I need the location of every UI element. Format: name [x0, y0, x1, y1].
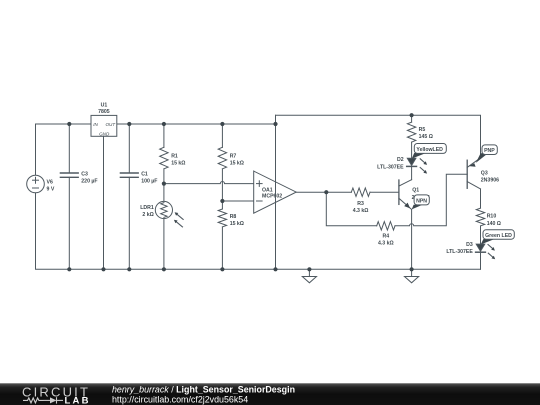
svg-text:LTL-307EE: LTL-307EE [446, 249, 473, 255]
svg-text:OUT: OUT [105, 122, 116, 127]
svg-text:LDR1: LDR1 [140, 205, 154, 211]
svg-text:LTL-307EE: LTL-307EE [377, 164, 404, 170]
label R7 15k [230, 154, 244, 167]
wire R4 to Q3 base (hop over Q1 emitter column) [395, 174, 467, 226]
wire op-amp output [296, 191, 351, 193]
resistor R5 [407, 115, 415, 158]
svg-text:145 Ω: 145 Ω [419, 134, 433, 140]
svg-text:IN: IN [93, 122, 98, 127]
svg-text:R7: R7 [230, 154, 237, 160]
LED D3 [476, 244, 496, 269]
resistor R10 [476, 208, 484, 244]
flag NPN [412, 195, 430, 210]
svg-text:PNP: PNP [484, 148, 495, 154]
svg-text:U1: U1 [101, 102, 108, 108]
photoresistor LDR1 [155, 201, 183, 269]
resistor R3 [351, 188, 370, 196]
wire top main rail left (V6 to U1 IN) [36, 124, 92, 175]
svg-text:100 µF: 100 µF [141, 178, 157, 184]
svg-text:henry_burrack / Light_Sensor_S: henry_burrack / Light_Sensor_SeniorDesgi… [112, 385, 295, 395]
svg-text:YellowLED: YellowLED [416, 147, 443, 153]
svg-text:2 kΩ: 2 kΩ [142, 212, 153, 218]
svg-text:D2: D2 [397, 157, 404, 163]
svg-text:4.3 kΩ: 4.3 kΩ [353, 208, 369, 214]
label Q3 2N3906 [481, 170, 499, 183]
svg-text:9 V: 9 V [47, 187, 55, 193]
svg-text:140 Ω: 140 Ω [487, 221, 501, 227]
svg-text:15 kΩ: 15 kΩ [230, 160, 244, 166]
resistor R7 [218, 124, 226, 209]
label Q1 2N3904 [412, 187, 430, 201]
ground symbol (Q1 emitter) [405, 269, 419, 283]
label C3 220uF [81, 171, 97, 184]
svg-text:GND: GND [99, 131, 110, 136]
label U1 7805 [93, 102, 116, 136]
label D2 LTL-307EE [377, 157, 404, 170]
op-amp OA1 MCP602 [254, 171, 297, 213]
label LDR1 2k [140, 205, 154, 218]
LED D2 [407, 158, 427, 179]
svg-text:R10: R10 [487, 213, 497, 219]
wire upper rail (supply tee up and across to Q3) [276, 115, 481, 158]
svg-text:15 kΩ: 15 kΩ [171, 160, 185, 166]
transistor Q1 [399, 180, 412, 270]
svg-text:Q3: Q3 [481, 170, 488, 176]
label R4 4.3k [378, 234, 394, 247]
label R10 140 [487, 213, 501, 226]
label OA1 MCP602 [262, 188, 282, 200]
wire op-amp noninverting input (with hop over R7 column) [164, 182, 254, 184]
flag YellowLED [412, 144, 447, 159]
wire output junction down to R4 [326, 192, 376, 226]
voltage source V6 [27, 175, 45, 193]
flag Green LED [481, 230, 515, 245]
svg-text:C3: C3 [81, 171, 88, 177]
flag PNP [476, 145, 498, 163]
svg-text:15 kΩ: 15 kΩ [230, 221, 244, 227]
CircuitLab logo [22, 384, 91, 405]
svg-text:V6: V6 [47, 180, 53, 186]
svg-text:220 µF: 220 µF [81, 178, 97, 184]
svg-text:R4: R4 [382, 234, 389, 240]
regulator U1 7805 [91, 115, 117, 269]
svg-text:C1: C1 [141, 171, 148, 177]
label V6 9V [47, 180, 55, 193]
svg-text:LAB: LAB [65, 396, 91, 405]
svg-text:D3: D3 [466, 242, 473, 248]
svg-text:R1: R1 [171, 154, 178, 160]
label C1 100uF [141, 171, 157, 184]
capacitor C3 [60, 124, 78, 269]
svg-text:2N3906: 2N3906 [481, 177, 499, 183]
svg-text:7805: 7805 [98, 109, 110, 115]
svg-text:4.3 kΩ: 4.3 kΩ [378, 240, 394, 246]
resistor R8 [218, 209, 226, 269]
wire top main rail right (U1 OUT to supply tee) [117, 123, 276, 125]
wire R3 to Q1 base [370, 191, 399, 193]
label R3 4.3k [353, 201, 369, 214]
svg-text:http://circuitlab.com/cf2j2vdu: http://circuitlab.com/cf2j2vdu56k54 [112, 394, 248, 404]
svg-text:MCP602: MCP602 [262, 193, 282, 199]
svg-text:Q1: Q1 [412, 187, 419, 193]
svg-text:R5: R5 [419, 127, 426, 133]
label R1 15k [171, 154, 185, 167]
footer text [112, 385, 295, 405]
capacitor C1 [120, 124, 138, 269]
resistor R4 [377, 222, 395, 230]
label R5 145 [419, 127, 433, 140]
label R8 15k [230, 214, 244, 227]
resistor R1 [160, 124, 168, 202]
wire op-amp inverting input [222, 200, 253, 202]
wire op-amp supply vertical down to ground rail [275, 115, 277, 269]
svg-text:R8: R8 [230, 214, 237, 220]
wire bottom ground rail [36, 193, 481, 269]
svg-text:R3: R3 [357, 201, 364, 207]
svg-text:NPN: NPN [416, 198, 427, 204]
label D3 LTL-307EE [446, 242, 473, 255]
ground symbol (op-amp supply) [302, 269, 316, 283]
svg-text:Green LED: Green LED [485, 233, 512, 239]
transistor Q3 [467, 158, 480, 208]
